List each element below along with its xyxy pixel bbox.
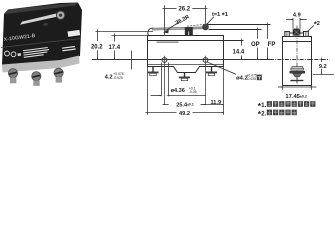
photo terminal screw 2 <box>32 72 41 81</box>
hole centerline verticals <box>164 56 166 105</box>
end view seam <box>283 41 312 43</box>
lever phantom dashes <box>187 24 209 26</box>
svg-text:20.2: 20.2 <box>91 45 103 51</box>
side view: body outline <box>148 36 224 73</box>
svg-text:9.2: 9.2 <box>319 64 327 70</box>
leader right hole <box>207 62 236 74</box>
svg-text:-0.05: -0.05 <box>189 90 197 94</box>
photo terminal screw 3 <box>54 68 63 77</box>
photo lever metallic <box>20 13 59 24</box>
side view: pivot level line (20.2 ref) <box>96 31 154 33</box>
dim 25.4 <box>165 104 169 106</box>
label dia 4.36 <box>161 63 163 97</box>
dim 26.2 <box>165 5 206 36</box>
end view terminal screw stack <box>292 67 302 69</box>
photo lever roller <box>56 11 64 19</box>
photo approval logos <box>4 51 9 56</box>
svg-text:4.9: 4.9 <box>293 12 301 18</box>
svg-text:FP: FP <box>268 42 276 48</box>
terminal screw center <box>184 73 186 77</box>
side view: gray bar under seam <box>157 41 179 43</box>
kanji hole char <box>257 75 262 81</box>
photo ratings text lines <box>23 47 50 58</box>
mounting hole right <box>203 58 208 63</box>
dim 20.2 <box>97 32 99 42</box>
photo side label chip <box>68 30 81 37</box>
end view roller <box>293 29 300 35</box>
dim 17.45 <box>282 85 284 90</box>
photo terminal base <box>2 56 80 73</box>
end view centerline vertical <box>296 26 298 86</box>
end view lever bracket left <box>285 32 290 37</box>
photo body dark housing <box>2 3 82 66</box>
dim 4.9 <box>292 18 294 29</box>
photo made-in-japan text <box>62 46 76 52</box>
svg-text:-0.025: -0.025 <box>113 76 123 80</box>
svg-text:ø4.36: ø4.36 <box>171 88 185 94</box>
photo: product photo of switch <box>1 3 82 86</box>
photo body seam <box>1 39 80 48</box>
svg-text:14.4: 14.4 <box>233 50 245 56</box>
OP level line <box>209 29 262 31</box>
mounting hole left <box>162 58 167 63</box>
lever hinge curl <box>148 28 156 36</box>
photo terminal screw 1 <box>8 69 17 78</box>
svg-text:OP: OP <box>251 42 260 48</box>
dim FP <box>267 25 269 39</box>
roller <box>203 24 209 30</box>
side view: base seam line <box>148 64 224 66</box>
photo lever hole <box>43 22 49 26</box>
svg-text:17.4: 17.4 <box>108 45 120 51</box>
dim OP <box>257 30 259 39</box>
end view lever bracket right <box>304 32 309 37</box>
svg-text:4.2: 4.2 <box>105 75 113 81</box>
plunger <box>185 27 193 35</box>
FP level line <box>208 24 271 26</box>
photo body top face <box>4 3 78 15</box>
end view bracket bar <box>289 32 303 34</box>
dim 9.2 <box>321 60 323 63</box>
lever arm <box>153 27 206 30</box>
svg-text:49.2: 49.2 <box>179 111 190 117</box>
end view bracket inner lines <box>286 32 288 37</box>
centerline horizontal <box>92 59 270 61</box>
terminal screw right <box>211 67 213 72</box>
side view: seam line <box>148 40 244 42</box>
dim 49.2 <box>147 67 149 115</box>
side view: body top ext line (17.4) <box>112 35 148 37</box>
svg-text:-0.025: -0.025 <box>246 77 256 81</box>
dim 17.4 <box>114 36 116 42</box>
terminal screw left <box>152 67 154 72</box>
end view body <box>283 37 312 86</box>
svg-text:26.2: 26.2 <box>178 7 190 13</box>
dim 14.4 <box>241 41 243 46</box>
